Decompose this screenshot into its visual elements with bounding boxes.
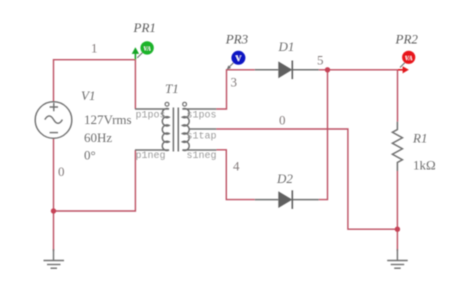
diode D2 [255, 190, 319, 209]
svg-text:PR2: PR2 [395, 32, 419, 47]
probe PR2 [398, 51, 415, 74]
svg-text:p1pos: p1pos [136, 111, 166, 122]
junction R1 bottom / net 0 [395, 227, 400, 232]
polarity dot secondary [183, 102, 187, 106]
wire: s1tap net 0 to R1 bottom junction [216, 129, 397, 229]
transformer T1 [135, 102, 216, 151]
svg-text:0°: 0° [84, 148, 96, 163]
wire: V1 top to PR1 corner [54, 60, 136, 109]
svg-text:VA: VA [405, 56, 413, 62]
svg-text:3: 3 [231, 75, 238, 90]
wire: node 5 down to D2 cathode [319, 70, 328, 200]
polarity dot primary [165, 102, 169, 106]
svg-text:R1: R1 [412, 131, 427, 146]
wire: V1 bottom to ground junction [53, 139, 55, 252]
s1tap pin [189, 128, 216, 130]
svg-text:4: 4 [233, 159, 240, 174]
svg-text:60Hz: 60Hz [84, 130, 112, 145]
svg-text:PR1: PR1 [133, 20, 156, 35]
svg-text:VA: VA [143, 47, 151, 53]
svg-text:1kΩ: 1kΩ [413, 158, 436, 173]
svg-text:0: 0 [58, 164, 65, 179]
svg-text:T1: T1 [165, 81, 179, 96]
svg-text:V: V [235, 53, 242, 63]
junction node 5 [325, 67, 330, 72]
svg-text:D2: D2 [276, 171, 293, 186]
wire: s1neg to node 4 corner to D2 anode [216, 150, 254, 200]
svg-text:PR3: PR3 [225, 32, 249, 47]
probe PR3 [227, 51, 246, 70]
svg-text:0: 0 [279, 113, 286, 128]
svg-text:V1: V1 [81, 88, 95, 103]
resistor R1 [392, 122, 402, 171]
svg-text:5: 5 [317, 53, 324, 68]
svg-text:p1neg: p1neg [136, 151, 166, 162]
AC source V1 [35, 102, 72, 139]
ground (right) [387, 249, 408, 268]
wire: s1pos up to node 3 corner and to D1 anode [216, 70, 254, 109]
svg-text:127Vrms: 127Vrms [84, 112, 132, 127]
probe PR1 [132, 41, 154, 59]
core [173, 108, 178, 152]
secondary coil [183, 109, 217, 151]
svg-text:s1neg: s1neg [187, 151, 217, 162]
svg-text:D1: D1 [278, 39, 295, 54]
svg-text:1: 1 [91, 41, 98, 56]
svg-text:s1tap: s1tap [187, 132, 217, 143]
p1pos pin + primary coil [135, 109, 169, 151]
svg-text:s1pos: s1pos [187, 111, 217, 122]
junction V1-ground node [51, 208, 56, 213]
ground (left) [44, 249, 65, 268]
wire: R1 bottom to ground [396, 171, 398, 251]
wire: D1 cathode to node 5 and on to PR2 corner [319, 70, 398, 122]
wire: bottom junction to p1neg [54, 150, 136, 211]
diode D1 [255, 61, 319, 80]
